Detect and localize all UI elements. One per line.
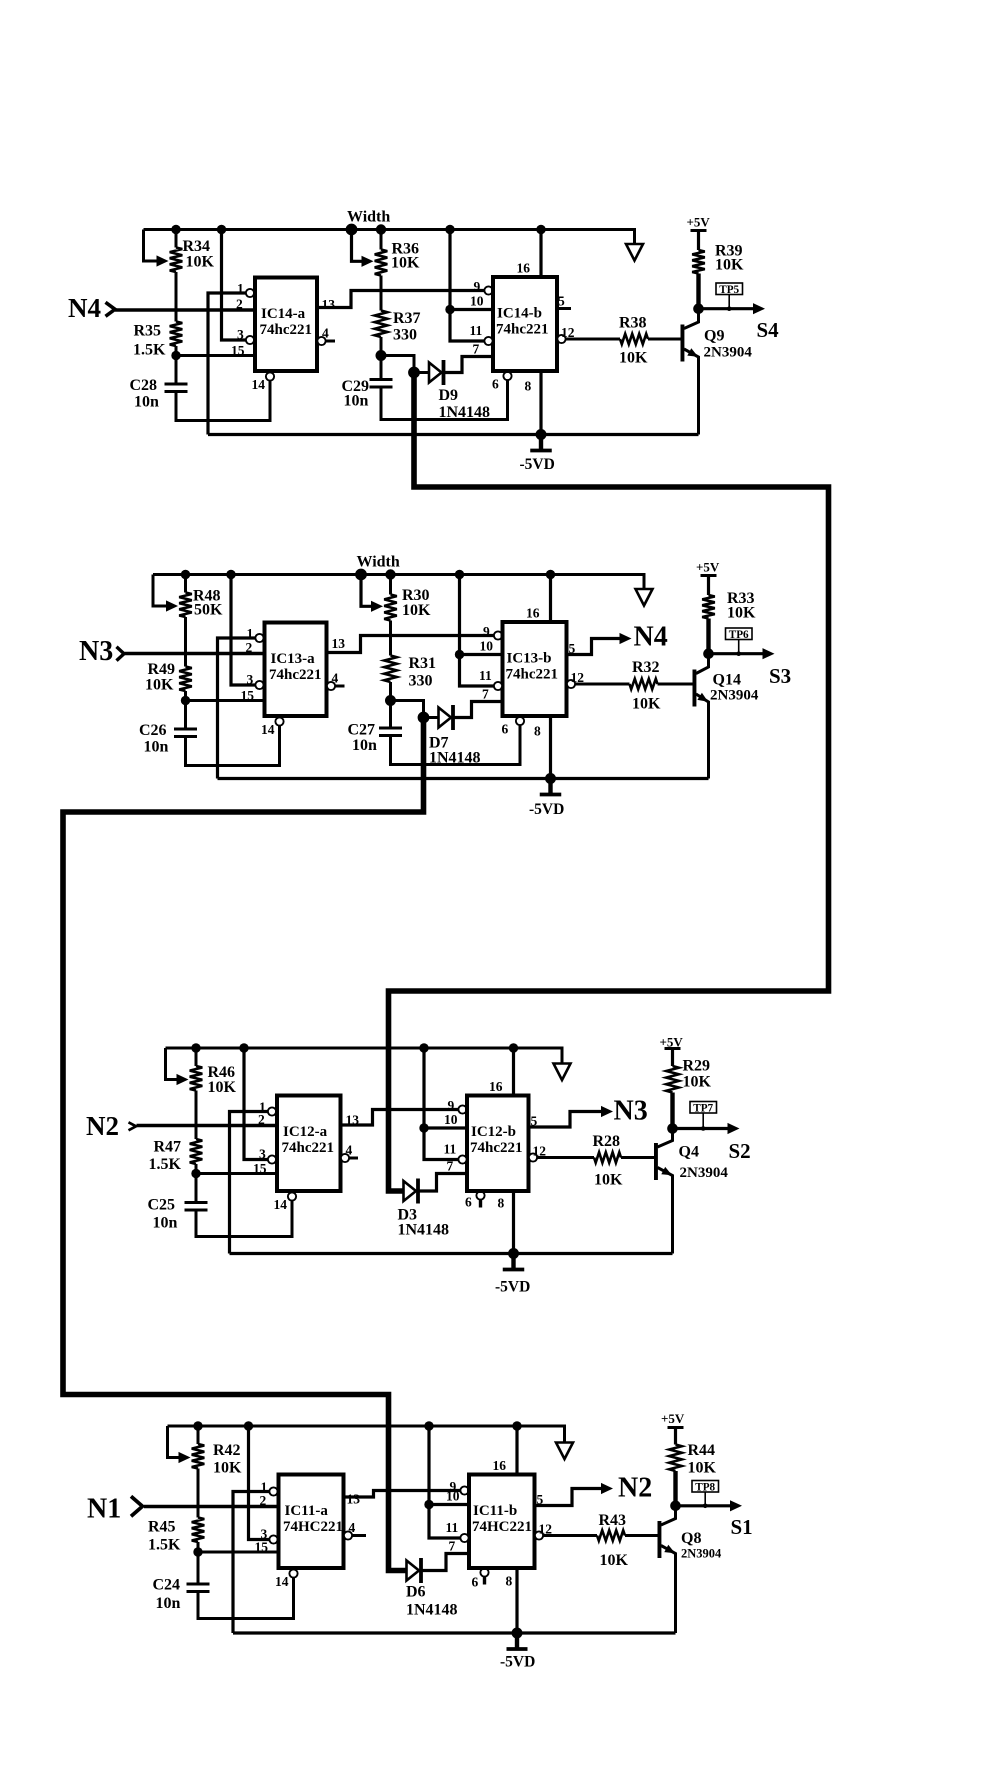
ground arrow symbol (block 2) xyxy=(636,589,653,606)
wire +5V rail to pins 10/11 (block 2) xyxy=(460,575,494,687)
power -5VD (block 1) xyxy=(520,435,555,474)
junction Q8 collector xyxy=(670,1501,681,1512)
node S3 output xyxy=(709,648,792,688)
svg-text:S1: S1 xyxy=(731,1515,753,1539)
wire +5V rail to pin 3 (block 1) xyxy=(222,230,246,341)
junction pin 10 (block 4) xyxy=(424,1500,433,1509)
power +5V (block 4) xyxy=(661,1411,685,1428)
potentiometer R46 (block 3) xyxy=(166,1048,203,1091)
svg-text:Width: Width xyxy=(347,209,390,226)
wire C24 bottom to pin 14 xyxy=(198,1577,294,1619)
wire C27 bottom to pin 6 xyxy=(391,725,521,765)
svg-text:R43: R43 xyxy=(599,1512,627,1529)
svg-text:74hc221: 74hc221 xyxy=(282,1140,335,1156)
svg-text:TP6: TP6 xyxy=(729,629,749,641)
svg-text:2: 2 xyxy=(258,1112,265,1127)
svg-text:14: 14 xyxy=(252,377,266,392)
potentiometer R36 Width (block 1) xyxy=(352,230,388,276)
junction on +5V rail #4 (block 2) xyxy=(385,569,395,579)
junction pin 10 (block 2) xyxy=(455,650,464,659)
wire pin 13 to pin 9 (node Q-to-B) xyxy=(317,291,484,308)
pin 11 (IC11-b) xyxy=(470,323,493,345)
svg-text:50K: 50K xyxy=(194,602,223,619)
svg-text:13: 13 xyxy=(347,1492,361,1507)
node S2 output xyxy=(673,1123,751,1163)
pin 6 (IC13-b) xyxy=(465,1191,485,1209)
svg-text:1: 1 xyxy=(237,281,244,296)
svg-text:8: 8 xyxy=(534,724,541,739)
pin 3 (IC11-a) xyxy=(237,327,254,344)
wire pin 13 to pin 9 (node Q-to-B) xyxy=(327,636,494,653)
wire +5V supply rail (block 1) xyxy=(144,230,635,245)
svg-text:2N3904: 2N3904 xyxy=(680,1165,729,1181)
svg-text:2: 2 xyxy=(260,1493,267,1508)
svg-text:+5V: +5V xyxy=(696,560,720,575)
pin 8 (IC11-b) xyxy=(525,371,542,435)
junction on +5V rail #2 (block 3) xyxy=(239,1043,248,1052)
junction on +5V rail #6 (block 1) xyxy=(536,225,545,234)
svg-text:8: 8 xyxy=(498,1196,505,1211)
svg-text:1N4148: 1N4148 xyxy=(439,404,491,421)
IC IC14-b 74HC221 monostable xyxy=(469,1475,535,1569)
wire C26 bottom to pin 14 xyxy=(186,725,280,766)
capacitor C28 (block 1) xyxy=(165,356,188,392)
capacitor C24 (block 4) xyxy=(187,1552,210,1592)
ground arrow symbol (block 4) xyxy=(556,1443,573,1460)
diode D3 1N4148 xyxy=(404,1179,419,1204)
junction on +5V rail #3 (block 2) xyxy=(355,569,367,581)
junction on +5V rail #4 (block 4) xyxy=(512,1421,521,1430)
pin 3 (IC13-a) xyxy=(259,1147,276,1164)
wire R31 junction to D7 anode xyxy=(391,701,424,718)
pin 1 (IC11-a) xyxy=(237,281,254,297)
svg-text:10: 10 xyxy=(480,639,494,654)
svg-text:-5VD: -5VD xyxy=(495,1279,530,1296)
transistor Q9 2N3904 xyxy=(681,309,699,435)
svg-text:15: 15 xyxy=(231,343,245,358)
wire N3 input to pin 2 xyxy=(125,652,265,655)
svg-text:3: 3 xyxy=(259,1147,266,1162)
svg-text:15: 15 xyxy=(255,1540,269,1555)
junction on +5V rail #1 (block 1) xyxy=(171,225,180,234)
svg-text:-5VD: -5VD xyxy=(520,456,555,473)
junction on +5V rail #5 (block 2) xyxy=(455,570,464,579)
wire D7 cathode to pin 7 xyxy=(454,702,503,718)
resistor R39 pull-up xyxy=(692,231,705,309)
svg-text:10K: 10K xyxy=(391,255,420,272)
svg-text:16: 16 xyxy=(489,1079,503,1094)
test point TP5 xyxy=(716,283,743,311)
svg-text:74HC221: 74HC221 xyxy=(472,1519,532,1535)
svg-text:2: 2 xyxy=(236,297,243,312)
wire pin 15 Cext (block 1) xyxy=(176,354,255,357)
IC IC12-a 74hc221 monostable xyxy=(265,623,327,717)
power +5V (block 2) xyxy=(696,560,720,576)
junction R37/C29 (block 1) xyxy=(376,350,387,361)
junction pin 10 (block 1) xyxy=(445,305,454,314)
svg-text:16: 16 xyxy=(526,606,540,621)
capacitor C29 (block 1) xyxy=(370,356,393,388)
pin 11 (IC12-b) xyxy=(479,668,502,690)
pin 4 (IC13-a) xyxy=(341,1143,358,1163)
svg-text:C25: C25 xyxy=(148,1197,176,1214)
svg-text:R47: R47 xyxy=(154,1139,182,1156)
svg-text:TP7: TP7 xyxy=(693,1102,713,1114)
power +5V (block 3) xyxy=(660,1035,684,1050)
svg-text:15: 15 xyxy=(253,1161,267,1176)
wire N2 input to pin 2 xyxy=(137,1124,278,1127)
svg-text:S3: S3 xyxy=(769,664,791,688)
junction on +5V rail #3 (block 1) xyxy=(346,224,358,236)
junction on +5V rail #4 (block 3) xyxy=(509,1043,518,1052)
svg-text:6: 6 xyxy=(472,1575,479,1590)
pin 4 (IC12-a) xyxy=(327,671,345,691)
svg-text:10n: 10n xyxy=(156,1595,181,1612)
svg-text:+5V: +5V xyxy=(687,215,711,230)
pin 9 (IC14-b) xyxy=(450,1479,469,1495)
svg-text:9: 9 xyxy=(448,1098,455,1113)
node S1 output xyxy=(676,1500,753,1539)
pin 10 (IC11-b) xyxy=(450,294,493,310)
svg-text:11: 11 xyxy=(444,1142,457,1157)
IC IC11-a 74hc221 monostable xyxy=(255,278,317,372)
svg-text:11: 11 xyxy=(446,1520,459,1535)
svg-text:11: 11 xyxy=(470,323,483,338)
svg-text:1.5K: 1.5K xyxy=(149,1156,182,1173)
wire pin 1 to -5VD rail (block 3) xyxy=(230,1112,268,1254)
IC IC13-a 74hc221 monostable xyxy=(277,1096,341,1192)
node S4 output xyxy=(699,303,780,342)
svg-text:8: 8 xyxy=(525,379,532,394)
wire +5V rail to pins 10/11 (block 3) xyxy=(424,1048,458,1160)
pin 16 (IC13-b) xyxy=(489,1048,514,1096)
wire pin 5 to N3 output xyxy=(529,1112,605,1128)
svg-text:10K: 10K xyxy=(688,1460,717,1477)
svg-text:8: 8 xyxy=(506,1574,513,1589)
svg-text:N4: N4 xyxy=(634,622,668,653)
svg-text:10K: 10K xyxy=(715,257,744,274)
svg-text:Q9: Q9 xyxy=(704,328,724,345)
svg-text:10n: 10n xyxy=(344,393,369,410)
ground arrow symbol (block 3) xyxy=(554,1064,571,1081)
potentiometer R42 (block 4) xyxy=(168,1426,205,1469)
pin 12 (IC11-b) xyxy=(557,325,620,343)
pin 11 (IC13-b) xyxy=(444,1142,467,1164)
diode D9 1N4148 xyxy=(429,360,444,385)
svg-text:R42: R42 xyxy=(213,1442,241,1459)
pin 16 (IC14-b) xyxy=(493,1426,518,1475)
pin 6 (IC12-b) xyxy=(502,717,525,737)
wire pin 1 to -5VD rail (block 4) xyxy=(233,1492,269,1634)
svg-text:12: 12 xyxy=(539,1522,553,1537)
junction on +5V rail #6 (block 2) xyxy=(546,570,555,579)
svg-text:6: 6 xyxy=(492,377,499,392)
pin 9 (IC12-b) xyxy=(483,624,502,640)
power +5V (block 1) xyxy=(687,215,711,231)
wire D7 anode xyxy=(424,716,439,719)
wire C29 bottom to pin 6 xyxy=(381,380,508,420)
svg-text:R29: R29 xyxy=(683,1058,711,1075)
svg-text:10: 10 xyxy=(470,294,484,309)
resistor R45 (block 4) xyxy=(192,1469,205,1553)
junction on +5V rail #1 (block 4) xyxy=(193,1421,202,1430)
svg-text:1: 1 xyxy=(247,626,254,641)
svg-text:74HC221: 74HC221 xyxy=(283,1519,343,1535)
junction Q4 collector xyxy=(667,1123,678,1134)
svg-text:2N3904: 2N3904 xyxy=(681,1547,722,1561)
junction R35/C28/pin15 (block 1) xyxy=(171,351,180,360)
junction Q9 collector xyxy=(693,303,704,314)
diode D6 1N4148 xyxy=(407,1558,422,1583)
pin 6 (IC11-b) xyxy=(492,372,512,392)
wire interconnect net from D9 anode (block1) to D3 anode (block3) xyxy=(389,373,829,1192)
svg-text:1N4148: 1N4148 xyxy=(406,1602,458,1619)
svg-text:10K: 10K xyxy=(402,602,431,619)
svg-text:R35: R35 xyxy=(134,323,162,340)
svg-text:2N3904: 2N3904 xyxy=(710,688,759,704)
svg-text:R31: R31 xyxy=(409,655,437,672)
svg-text:14: 14 xyxy=(275,1574,289,1589)
svg-text:7: 7 xyxy=(482,687,489,702)
junction on +5V rail #2 (block 2) xyxy=(226,570,235,579)
svg-text:12: 12 xyxy=(571,670,585,685)
wire -5VD rail (block 3) xyxy=(230,1252,673,1255)
junction pin 8 on -5VD rail (block 2) xyxy=(545,773,556,784)
svg-text:IC14-a: IC14-a xyxy=(261,306,306,322)
wire +5V supply rail (block 4) xyxy=(168,1426,565,1443)
junction on +5V rail #2 (block 1) xyxy=(217,225,226,234)
resistor R47 (block 3) xyxy=(190,1091,203,1174)
svg-text:10K: 10K xyxy=(600,1552,629,1569)
wire pin 15 Cext (block 3) xyxy=(196,1172,277,1175)
svg-text:R45: R45 xyxy=(148,1519,176,1536)
svg-text:1.5K: 1.5K xyxy=(133,342,166,359)
svg-text:1.5K: 1.5K xyxy=(148,1537,181,1554)
pin 4 (IC14-a) xyxy=(344,1520,366,1540)
svg-text:Q8: Q8 xyxy=(681,1530,701,1547)
svg-text:1N4148: 1N4148 xyxy=(429,750,481,767)
svg-text:10K: 10K xyxy=(208,1079,237,1096)
svg-text:IC11-a: IC11-a xyxy=(285,1503,329,1519)
wire C28 bottom to pin 14 xyxy=(176,380,270,421)
svg-text:10K: 10K xyxy=(683,1074,712,1091)
svg-text:330: 330 xyxy=(393,327,417,344)
wire D6 cathode to pin 7 xyxy=(422,1554,470,1571)
svg-text:15: 15 xyxy=(241,688,255,703)
svg-text:16: 16 xyxy=(517,261,531,276)
svg-text:10K: 10K xyxy=(213,1460,242,1477)
svg-text:R49: R49 xyxy=(148,661,176,678)
svg-text:3: 3 xyxy=(247,672,254,687)
svg-text:4: 4 xyxy=(332,671,339,686)
wire pin 13 to pin 9 (node Q-to-B) xyxy=(341,1110,459,1126)
svg-text:12: 12 xyxy=(533,1144,547,1159)
power -5VD (block 3) xyxy=(495,1254,530,1296)
svg-text:3: 3 xyxy=(237,327,244,342)
svg-text:IC14-b: IC14-b xyxy=(497,306,542,322)
svg-text:12: 12 xyxy=(561,325,575,340)
svg-text:2: 2 xyxy=(246,640,253,655)
svg-text:74hc221: 74hc221 xyxy=(470,1140,523,1156)
svg-text:R38: R38 xyxy=(619,315,647,332)
wire +5V rail to pins 10/11 (block 4) xyxy=(429,1426,460,1538)
wire pin 1 to -5VD rail (block 1) xyxy=(208,293,246,435)
junction on +5V rail #3 (block 4) xyxy=(424,1421,433,1430)
pin 9 (IC13-b) xyxy=(448,1098,467,1114)
transistor Q14 2N3904 xyxy=(693,654,709,779)
transistor Q8 2N3904 xyxy=(658,1506,676,1633)
svg-text:10K: 10K xyxy=(619,350,648,367)
power -5VD (block 2) xyxy=(529,779,564,819)
junction R31/C27 (block 2) xyxy=(385,695,396,706)
pin 1 (IC13-a) xyxy=(259,1100,276,1116)
wire +5V supply rail (block 3) xyxy=(166,1048,563,1064)
resistor R31 (block 2) xyxy=(384,621,397,701)
potentiometer R34 (block 1) xyxy=(144,230,183,273)
svg-text:10K: 10K xyxy=(727,605,756,622)
pin 8 (IC14-b) xyxy=(506,1568,518,1633)
potentiometer R30 Width (block 2) xyxy=(361,575,397,621)
svg-text:R37: R37 xyxy=(393,310,421,327)
svg-text:+5V: +5V xyxy=(661,1411,685,1426)
svg-text:IC13-b: IC13-b xyxy=(507,651,552,667)
svg-text:7: 7 xyxy=(449,1539,456,1554)
svg-text:S2: S2 xyxy=(729,1139,751,1163)
capacitor C27 (block 2) xyxy=(379,701,402,736)
wire -5VD rail (block 1) xyxy=(208,433,699,436)
svg-text:Q14: Q14 xyxy=(713,672,741,689)
potentiometer R48 (block 2) xyxy=(153,575,192,618)
test point TP7 xyxy=(690,1102,717,1131)
IC IC14-a 74HC221 monostable xyxy=(279,1475,344,1569)
resistor R28 base resistor xyxy=(594,1152,656,1162)
test point TP8 xyxy=(692,1481,719,1509)
pin 12 (IC14-b) xyxy=(535,1522,597,1540)
svg-text:C26: C26 xyxy=(139,722,167,739)
svg-text:10: 10 xyxy=(444,1112,458,1127)
diode D7 1N4148 xyxy=(439,705,454,730)
wire +5V rail to pins 10/11 (block 1) xyxy=(450,230,484,342)
svg-text:D6: D6 xyxy=(406,1584,426,1601)
svg-text:10K: 10K xyxy=(594,1172,623,1189)
svg-text:10n: 10n xyxy=(134,394,159,411)
pin 4 (IC11-a) xyxy=(317,326,335,346)
pin 8 (IC12-b) xyxy=(534,716,551,779)
IC IC11-b 74hc221 monostable xyxy=(493,277,557,371)
wire N4 input to pin 2 xyxy=(115,308,255,311)
svg-text:4: 4 xyxy=(322,326,329,341)
wire C25 bottom to pin 14 xyxy=(196,1200,292,1237)
svg-text:N2: N2 xyxy=(618,1473,652,1504)
pin 5 (IC11-b) stub xyxy=(557,294,571,309)
pin 14 (IC11-a) xyxy=(252,372,275,392)
svg-text:330: 330 xyxy=(409,673,433,690)
svg-text:4: 4 xyxy=(346,1143,353,1158)
svg-text:10n: 10n xyxy=(153,1215,178,1232)
svg-text:-5VD: -5VD xyxy=(529,801,564,818)
junction on +5V rail #2 (block 4) xyxy=(244,1421,253,1430)
wire pin 15 Cext (block 4) xyxy=(198,1551,279,1554)
pin 12 (IC12-b) xyxy=(567,670,630,688)
pin 11 (IC14-b) xyxy=(446,1520,469,1542)
svg-text:IC11-b: IC11-b xyxy=(473,1503,517,1519)
pin 14 (IC14-a) xyxy=(275,1569,298,1589)
wire +5V rail to pin 3 (block 2) xyxy=(231,575,255,686)
wire interconnect net from D7 anode (block2) to D6 anode (block4) xyxy=(63,718,424,1571)
svg-text:11: 11 xyxy=(479,668,492,683)
svg-text:IC12-a: IC12-a xyxy=(283,1124,328,1140)
svg-text:4: 4 xyxy=(349,1520,356,1535)
resistor R32 base resistor xyxy=(630,679,695,689)
resistor R49 (block 2) xyxy=(179,617,192,701)
svg-text:74hc221: 74hc221 xyxy=(506,667,559,683)
junction R49/C26/pin15 (block 2) xyxy=(181,696,190,705)
test point TP6 xyxy=(726,628,753,656)
IC IC13-b 74hc221 monostable xyxy=(467,1096,529,1192)
pin 12 (IC13-b) xyxy=(529,1144,594,1162)
pin 9 (IC11-b) xyxy=(474,279,493,295)
capacitor C26 (block 2) xyxy=(174,701,197,737)
junction R45/C24/pin15 (block 4) xyxy=(193,1547,202,1556)
wire pin 5 to N4 output xyxy=(567,639,623,655)
junction D9 anode node xyxy=(408,367,420,379)
junction on +5V rail #5 (block 1) xyxy=(445,225,454,234)
pin 3 (IC14-a) xyxy=(261,1527,278,1544)
svg-text:10K: 10K xyxy=(632,696,661,713)
svg-text:D9: D9 xyxy=(439,387,459,404)
junction R47/C25/pin15 (block 3) xyxy=(191,1169,200,1178)
junction pin 10 (block 3) xyxy=(419,1123,428,1132)
resistor R43 base resistor xyxy=(597,1530,659,1540)
wire R37 junction to D9 anode xyxy=(381,356,414,373)
resistor R38 base resistor xyxy=(620,334,682,344)
svg-text:10K: 10K xyxy=(145,677,174,694)
resistor R35 (block 1) xyxy=(170,272,183,356)
svg-text:9: 9 xyxy=(483,624,490,639)
pin 10 (IC14-b) xyxy=(429,1489,469,1505)
pin 10 (IC13-b) xyxy=(424,1112,467,1128)
pin 1 (IC14-a) xyxy=(261,1480,278,1496)
svg-text:R28: R28 xyxy=(593,1133,621,1150)
wire -5VD rail (block 4) xyxy=(233,1631,676,1634)
ground arrow symbol (block 1) xyxy=(626,244,643,261)
junction Q14 collector xyxy=(703,648,714,659)
pin 1 (IC12-a) xyxy=(247,626,264,642)
junction pin 8 on -5VD rail (block 4) xyxy=(512,1628,523,1639)
pin 14 (IC13-a) xyxy=(274,1192,297,1212)
junction on +5V rail #3 (block 3) xyxy=(419,1043,428,1052)
svg-text:N3: N3 xyxy=(614,1096,648,1127)
svg-text:10n: 10n xyxy=(352,737,377,754)
svg-text:74hc221: 74hc221 xyxy=(269,667,322,683)
svg-text:13: 13 xyxy=(332,636,346,651)
svg-text:16: 16 xyxy=(493,1458,507,1473)
svg-text:7: 7 xyxy=(473,342,480,357)
IC IC12-b 74hc221 monostable xyxy=(503,622,567,716)
svg-text:TP8: TP8 xyxy=(695,1481,715,1493)
svg-text:10n: 10n xyxy=(144,739,169,756)
svg-text:Width: Width xyxy=(357,554,400,571)
transistor Q4 2N3904 xyxy=(654,1129,673,1254)
pin 3 (IC12-a) xyxy=(247,672,264,689)
svg-text:5: 5 xyxy=(558,294,565,309)
pin 10 (IC12-b) xyxy=(460,639,503,655)
svg-text:IC12-b: IC12-b xyxy=(471,1124,516,1140)
junction pin 8 on -5VD rail (block 3) xyxy=(508,1248,519,1259)
wire N1 input to pin 2 xyxy=(144,1505,279,1508)
svg-text:N4: N4 xyxy=(68,293,101,323)
wire pin 1 to -5VD rail (block 2) xyxy=(218,638,256,779)
